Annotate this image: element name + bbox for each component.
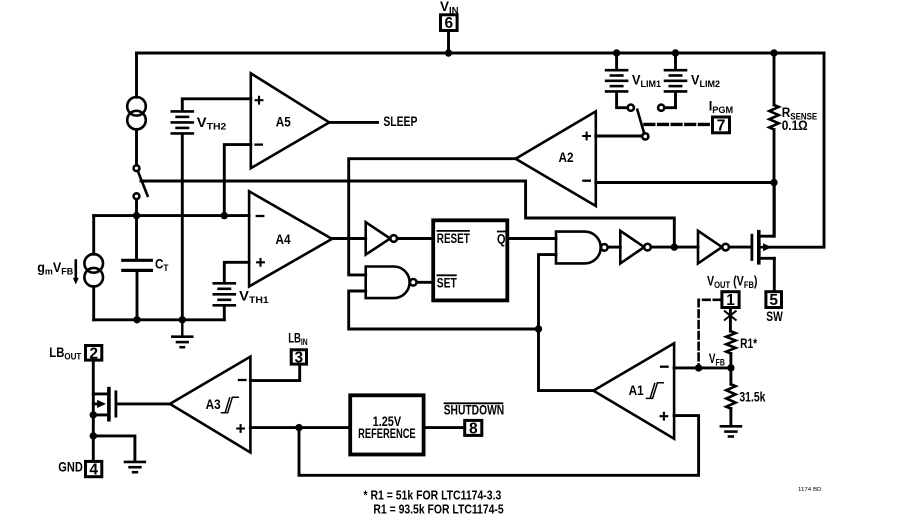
svg-text:GND: GND	[58, 459, 83, 474]
node LB ground junction	[90, 432, 97, 439]
svg-text:R1 = 93.5k FOR LTC1174-5: R1 = 93.5k FOR LTC1174-5	[373, 503, 503, 517]
inverter U5	[620, 231, 651, 264]
ground below 31.5k	[721, 426, 741, 436]
svg-text:SET: SET	[437, 275, 458, 290]
hysteresis glyph A1	[646, 383, 664, 399]
battery VTH2	[172, 111, 193, 133]
label A3 plus	[236, 424, 245, 433]
dashed link IPGM	[645, 123, 712, 126]
node VIN junction	[445, 49, 452, 56]
op-amp A2	[516, 111, 596, 206]
battery VTH1	[214, 283, 235, 305]
wire A4 output to inverter	[332, 237, 366, 240]
wire A5 output SLEEP	[329, 121, 377, 124]
overline SET	[437, 274, 457, 276]
svg-text:3: 3	[295, 350, 304, 367]
inverter U1	[366, 222, 397, 254]
wire top VIN rail	[137, 52, 825, 55]
wire VTH2 bottom to rail	[181, 135, 184, 320]
svg-text:A5: A5	[276, 115, 291, 130]
pin 6 VIN box	[441, 15, 458, 31]
overline Qbar	[497, 231, 506, 233]
node LB source junction	[90, 411, 97, 418]
wire VIN pin stub	[447, 32, 450, 53]
overline SHUTDOWN	[444, 402, 504, 404]
wire right rail to MOSFET body	[770, 53, 825, 247]
wire LB drain terminal	[93, 392, 109, 395]
pin 5 SW box	[766, 292, 782, 308]
svg-text:A1: A1	[629, 383, 644, 398]
svg-text:7: 7	[717, 118, 726, 135]
nand gate U4	[556, 232, 608, 264]
transistor Q1 power PMOS	[752, 232, 772, 263]
wire ground branch from LB source	[93, 436, 135, 461]
wire nand lower input vertical to A1 output	[539, 255, 594, 391]
wire A3 output to LB gate	[117, 402, 170, 405]
label A2 plus	[582, 132, 591, 141]
wire MOSFET source to SW pin	[773, 258, 776, 290]
svg-text:4: 4	[89, 462, 98, 479]
wire VLIM2 stub	[674, 53, 677, 69]
wire node H horizontal	[94, 214, 249, 217]
wire A1 minus to VFB node	[674, 366, 731, 369]
wire buffer to gate	[731, 246, 750, 249]
wire A5 minus	[224, 145, 251, 216]
svg-text:RESET: RESET	[437, 231, 471, 246]
wire LB source terminal	[93, 413, 109, 416]
node sense drain junction	[770, 179, 777, 186]
svg-text:2: 2	[89, 345, 98, 362]
X mark no connect	[725, 311, 736, 320]
battery VLIM2	[665, 70, 686, 91]
svg-text:1: 1	[726, 292, 735, 309]
pin 7 IPGM box	[713, 117, 730, 133]
svg-text:A4: A4	[276, 232, 291, 247]
wire A2 plus to limit switch	[596, 135, 642, 138]
label A4 plus	[256, 258, 265, 267]
ground below LB MOSFET	[125, 462, 145, 472]
svg-text:A2: A2	[559, 150, 574, 165]
svg-text:A3: A3	[206, 397, 221, 412]
node VLIM1 rail junction	[613, 49, 620, 56]
ground below CT rail	[172, 320, 192, 347]
wire R1 bottom to 31.5k top through VFB node	[729, 354, 732, 385]
wire current source to switch S1	[135, 129, 138, 165]
label A2 minus	[582, 180, 591, 182]
op-amp A1	[593, 343, 674, 438]
svg-text:5: 5	[769, 292, 778, 309]
node VFB dashed junction	[695, 364, 702, 371]
wire VLIM2 bottom to contact	[664, 93, 675, 108]
label A5 minus	[254, 143, 263, 145]
pin 8 SHUTDOWN box	[465, 420, 482, 435]
svg-text:1174 BD: 1174 BD	[798, 487, 822, 493]
wire bottom left rail	[94, 318, 225, 321]
label A3 minus	[238, 379, 247, 381]
node A5 minus junction	[221, 212, 228, 219]
wire inverter to reset input	[397, 237, 433, 240]
wire inverter2 to buffer	[651, 246, 698, 249]
wire reference to shutdown pin	[425, 426, 463, 429]
label A4 minus	[256, 215, 265, 217]
hysteresis glyph A3	[221, 397, 239, 413]
wire VLIM1 stub	[615, 53, 618, 69]
wire nand out to inverter2	[608, 246, 621, 249]
op-amp A4	[249, 191, 332, 286]
wire switch tap to gate node	[141, 181, 674, 247]
node gate drive junction	[671, 243, 678, 250]
inverter U6	[698, 231, 729, 264]
wire switch S1 to node H and CT	[135, 199, 138, 259]
svg-text:SW: SW	[766, 309, 783, 324]
current source gmVFB	[73, 254, 103, 286]
svg-text:31.5k: 31.5k	[739, 390, 765, 405]
label A1 plus	[660, 412, 669, 421]
wire A1 plus loop to reference node	[299, 416, 699, 476]
transistor Q2 LBOUT	[97, 389, 116, 420]
wire pin1 to R1	[729, 309, 732, 331]
reference box 1.25V	[350, 395, 423, 454]
wire SW drain terminal	[759, 183, 775, 237]
label A1 minus	[660, 366, 669, 368]
wire LB drain from pin2	[92, 362, 95, 460]
node VLIM2 rail junction	[672, 49, 679, 56]
pin 4 GND box	[86, 461, 102, 476]
wire A3 plus to reference box	[250, 426, 348, 429]
wire VTH1 bottom to rail	[223, 306, 226, 319]
svg-text:0.1Ω: 0.1Ω	[782, 118, 808, 134]
node ground rail junction	[179, 316, 186, 323]
svg-text:SHUTDOWN: SHUTDOWN	[444, 403, 505, 418]
op-amp A5	[251, 73, 329, 168]
resistor R1	[726, 331, 735, 353]
wire left drop to current source	[135, 53, 138, 97]
pin 1 VOUT box	[722, 292, 739, 308]
svg-text:R1*: R1*	[740, 336, 758, 351]
svg-text:6: 6	[444, 15, 453, 32]
svg-text:8: 8	[469, 421, 478, 438]
wire set-nand to set input	[417, 281, 434, 284]
capacitor CT	[123, 260, 152, 270]
resistor 31.5k	[726, 384, 735, 409]
switch S1	[134, 165, 148, 199]
wire gm source drop	[92, 216, 95, 255]
dashed wire VOUT sense	[699, 300, 721, 368]
wire VLIM1 bottom to contact	[617, 93, 628, 108]
latch U3	[433, 220, 507, 300]
wire Qbar output to nand	[509, 237, 556, 240]
label A5 plus	[255, 96, 264, 105]
wire set-nand lower input to burst node	[349, 291, 539, 329]
wire SW source terminal	[759, 257, 775, 260]
wire 31.5k bottom to ground	[729, 408, 732, 425]
wire gm source to bottom rail	[92, 286, 95, 319]
current source I1 top	[127, 97, 146, 129]
wire A2 minus to sense node	[596, 181, 774, 184]
node VFB divider junction	[727, 364, 734, 371]
svg-text:Q: Q	[497, 232, 506, 247]
wire CT bottom	[136, 272, 139, 320]
node reference junction	[295, 424, 302, 431]
wire VTH2 top to A5 plus	[182, 99, 251, 110]
overline RESET	[437, 230, 470, 232]
resistor RSENSE	[769, 105, 778, 129]
node CT top junction	[133, 212, 140, 219]
node burst junction	[535, 325, 542, 332]
op-amp A3	[170, 357, 251, 453]
node RSENSE rail junction	[770, 49, 777, 56]
node CT bottom rail junction	[133, 316, 140, 323]
svg-text:SLEEP: SLEEP	[383, 114, 417, 129]
wire LB body terminal	[93, 402, 98, 405]
svg-text:* R1 = 51k FOR LTC1174-3.3: * R1 = 51k FOR LTC1174-3.3	[364, 489, 502, 503]
svg-text:REFERENCE: REFERENCE	[358, 426, 416, 441]
battery VLIM1	[606, 70, 627, 91]
nand gate U2 set	[366, 267, 417, 299]
pin 3 LBIN box	[291, 350, 306, 364]
pin 2 LBOUT box	[86, 346, 102, 361]
wire RSENSE bottom to drain junction	[773, 130, 776, 237]
wire A2 output feedback to set-nand top input	[349, 159, 516, 275]
wire A3 minus to LBIN pin	[250, 366, 299, 381]
switch S2 current limit	[628, 105, 665, 140]
wire RSENSE top	[773, 53, 776, 105]
wire A4 plus to VTH1	[224, 262, 249, 282]
